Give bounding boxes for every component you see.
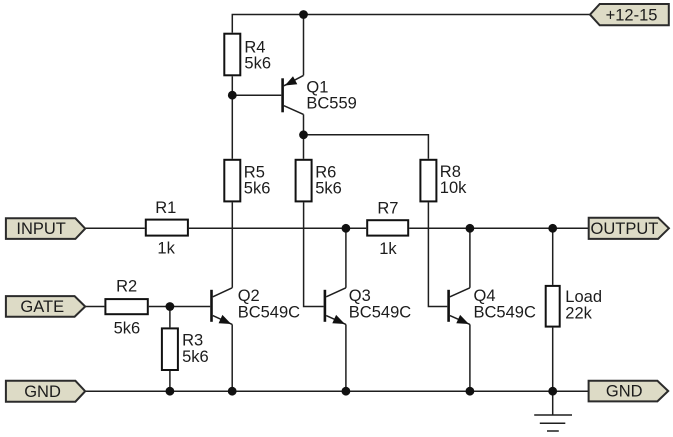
svg-text:22k: 22k — [565, 304, 592, 322]
resistor R4 — [224, 34, 240, 76]
resistor R6 — [296, 160, 312, 202]
svg-text:GND: GND — [24, 383, 61, 401]
transistor Q3 NPN BC549C — [324, 288, 346, 325]
svg-text:R1: R1 — [155, 199, 176, 217]
wire Q1 collector down, across to R8 top — [303, 114, 305, 158]
wire Q1 base to node A — [232, 94, 281, 96]
svg-text:5k6: 5k6 — [244, 54, 271, 72]
svg-text:R7: R7 — [377, 200, 398, 218]
svg-text:BC549C: BC549C — [349, 304, 411, 322]
svg-text:GND: GND — [606, 383, 643, 401]
junction signal line / Q4 collector — [466, 224, 475, 233]
svg-text:R2: R2 — [116, 277, 137, 295]
transistor Q4 NPN BC549C — [447, 288, 470, 325]
resistor R7 — [367, 220, 408, 235]
svg-text:Q3: Q3 — [349, 287, 371, 305]
svg-text:Q4: Q4 — [474, 287, 496, 305]
junction top rail / Q1 emitter — [299, 10, 308, 19]
svg-text:GATE: GATE — [20, 298, 64, 316]
wire GATE flag to R2 — [85, 306, 105, 308]
svg-text:5k6: 5k6 — [244, 179, 271, 197]
wire Load bottom to ground line — [552, 328, 554, 392]
wire signal: INPUT flag to R1 — [85, 227, 145, 229]
wire Q3 collector to signal line — [345, 228, 347, 287]
wire signal: R1 to R7 — [189, 227, 366, 229]
svg-text:+12-15: +12-15 — [606, 6, 658, 24]
wire R8 bottom down and over to Q4 base (crosses signal line) — [428, 202, 447, 306]
junction Q1 collector / R6 / R8 — [299, 130, 308, 139]
junction ground line / Q2 emitter — [228, 387, 237, 396]
wire R6 bottom down and over to Q3 base — [304, 202, 324, 306]
wire Q1 emitter vertical to top rail — [303, 15, 305, 76]
net flag +12-15 supply — [590, 4, 669, 25]
wire Q2 emitter to ground line — [231, 324, 233, 391]
junction node A: R4 / R5 / Q1 base — [228, 91, 237, 100]
svg-text:5k6: 5k6 — [182, 348, 209, 366]
net flag OUTPUT — [589, 218, 669, 239]
junction ground line / Q3 emitter — [342, 387, 351, 396]
junction ground line / R3 — [166, 387, 175, 396]
svg-text:1k: 1k — [379, 240, 397, 258]
svg-text:Q2: Q2 — [238, 287, 260, 305]
svg-text:BC559: BC559 — [306, 95, 356, 113]
resistor R1 — [146, 220, 188, 236]
wire ground line GND-left to GND-right — [85, 390, 589, 392]
net flag GATE — [6, 296, 85, 317]
wire R3 bottom to ground line — [169, 371, 171, 391]
junction ground line / Q4 emitter — [466, 387, 475, 396]
svg-text:5k6: 5k6 — [114, 319, 141, 337]
junction signal line / Load top — [548, 224, 557, 233]
svg-text:OUTPUT: OUTPUT — [591, 220, 659, 238]
wire node B to R3 top — [169, 307, 171, 328]
svg-text:1k: 1k — [157, 240, 175, 258]
wire R4 bottom to node A (Q1 base) — [231, 76, 233, 159]
ground earth symbol — [534, 415, 572, 431]
wire Q3 emitter to ground line — [345, 324, 347, 391]
svg-text:5k6: 5k6 — [315, 179, 342, 197]
wire ground line stem to earth symbol — [552, 391, 554, 415]
net flag INPUT — [6, 218, 85, 239]
resistor Load 22k — [546, 286, 560, 327]
resistor R8 — [420, 160, 436, 202]
svg-text:INPUT: INPUT — [16, 220, 66, 238]
wire Q4 emitter to ground line — [469, 324, 471, 391]
svg-text:BC549C: BC549C — [238, 304, 300, 322]
wire OUTPUT node down to Load top — [552, 228, 554, 285]
resistor R2 — [105, 299, 147, 314]
wire Q4 collector to signal line — [469, 228, 471, 287]
resistor R5 — [224, 160, 240, 202]
resistor R3 — [162, 328, 178, 370]
transistor Q2 NPN BC549C — [210, 288, 232, 325]
svg-text:10k: 10k — [440, 179, 467, 197]
svg-text:BC549C: BC549C — [474, 304, 536, 322]
wire top supply rail from R4 top to +12-15 flag — [232, 15, 589, 33]
wire R2 to Q2 base — [149, 306, 210, 308]
transistor Q1 PNP BC559 — [281, 75, 303, 114]
wire Q1 collector node to R8 top — [304, 135, 429, 159]
net flag GND left — [6, 381, 85, 402]
wire signal: R7 to OUTPUT flag — [409, 227, 589, 229]
junction node B: R2 / R3 / Q2 base — [166, 302, 175, 311]
junction ground line / Load bottom / earth — [548, 387, 557, 396]
junction signal line / Q3 collector — [342, 224, 351, 233]
net flag GND right — [589, 381, 669, 402]
svg-text:R3: R3 — [182, 331, 203, 349]
wire R5 bottom down to Q2 collector (crosses signal line) — [231, 202, 233, 287]
